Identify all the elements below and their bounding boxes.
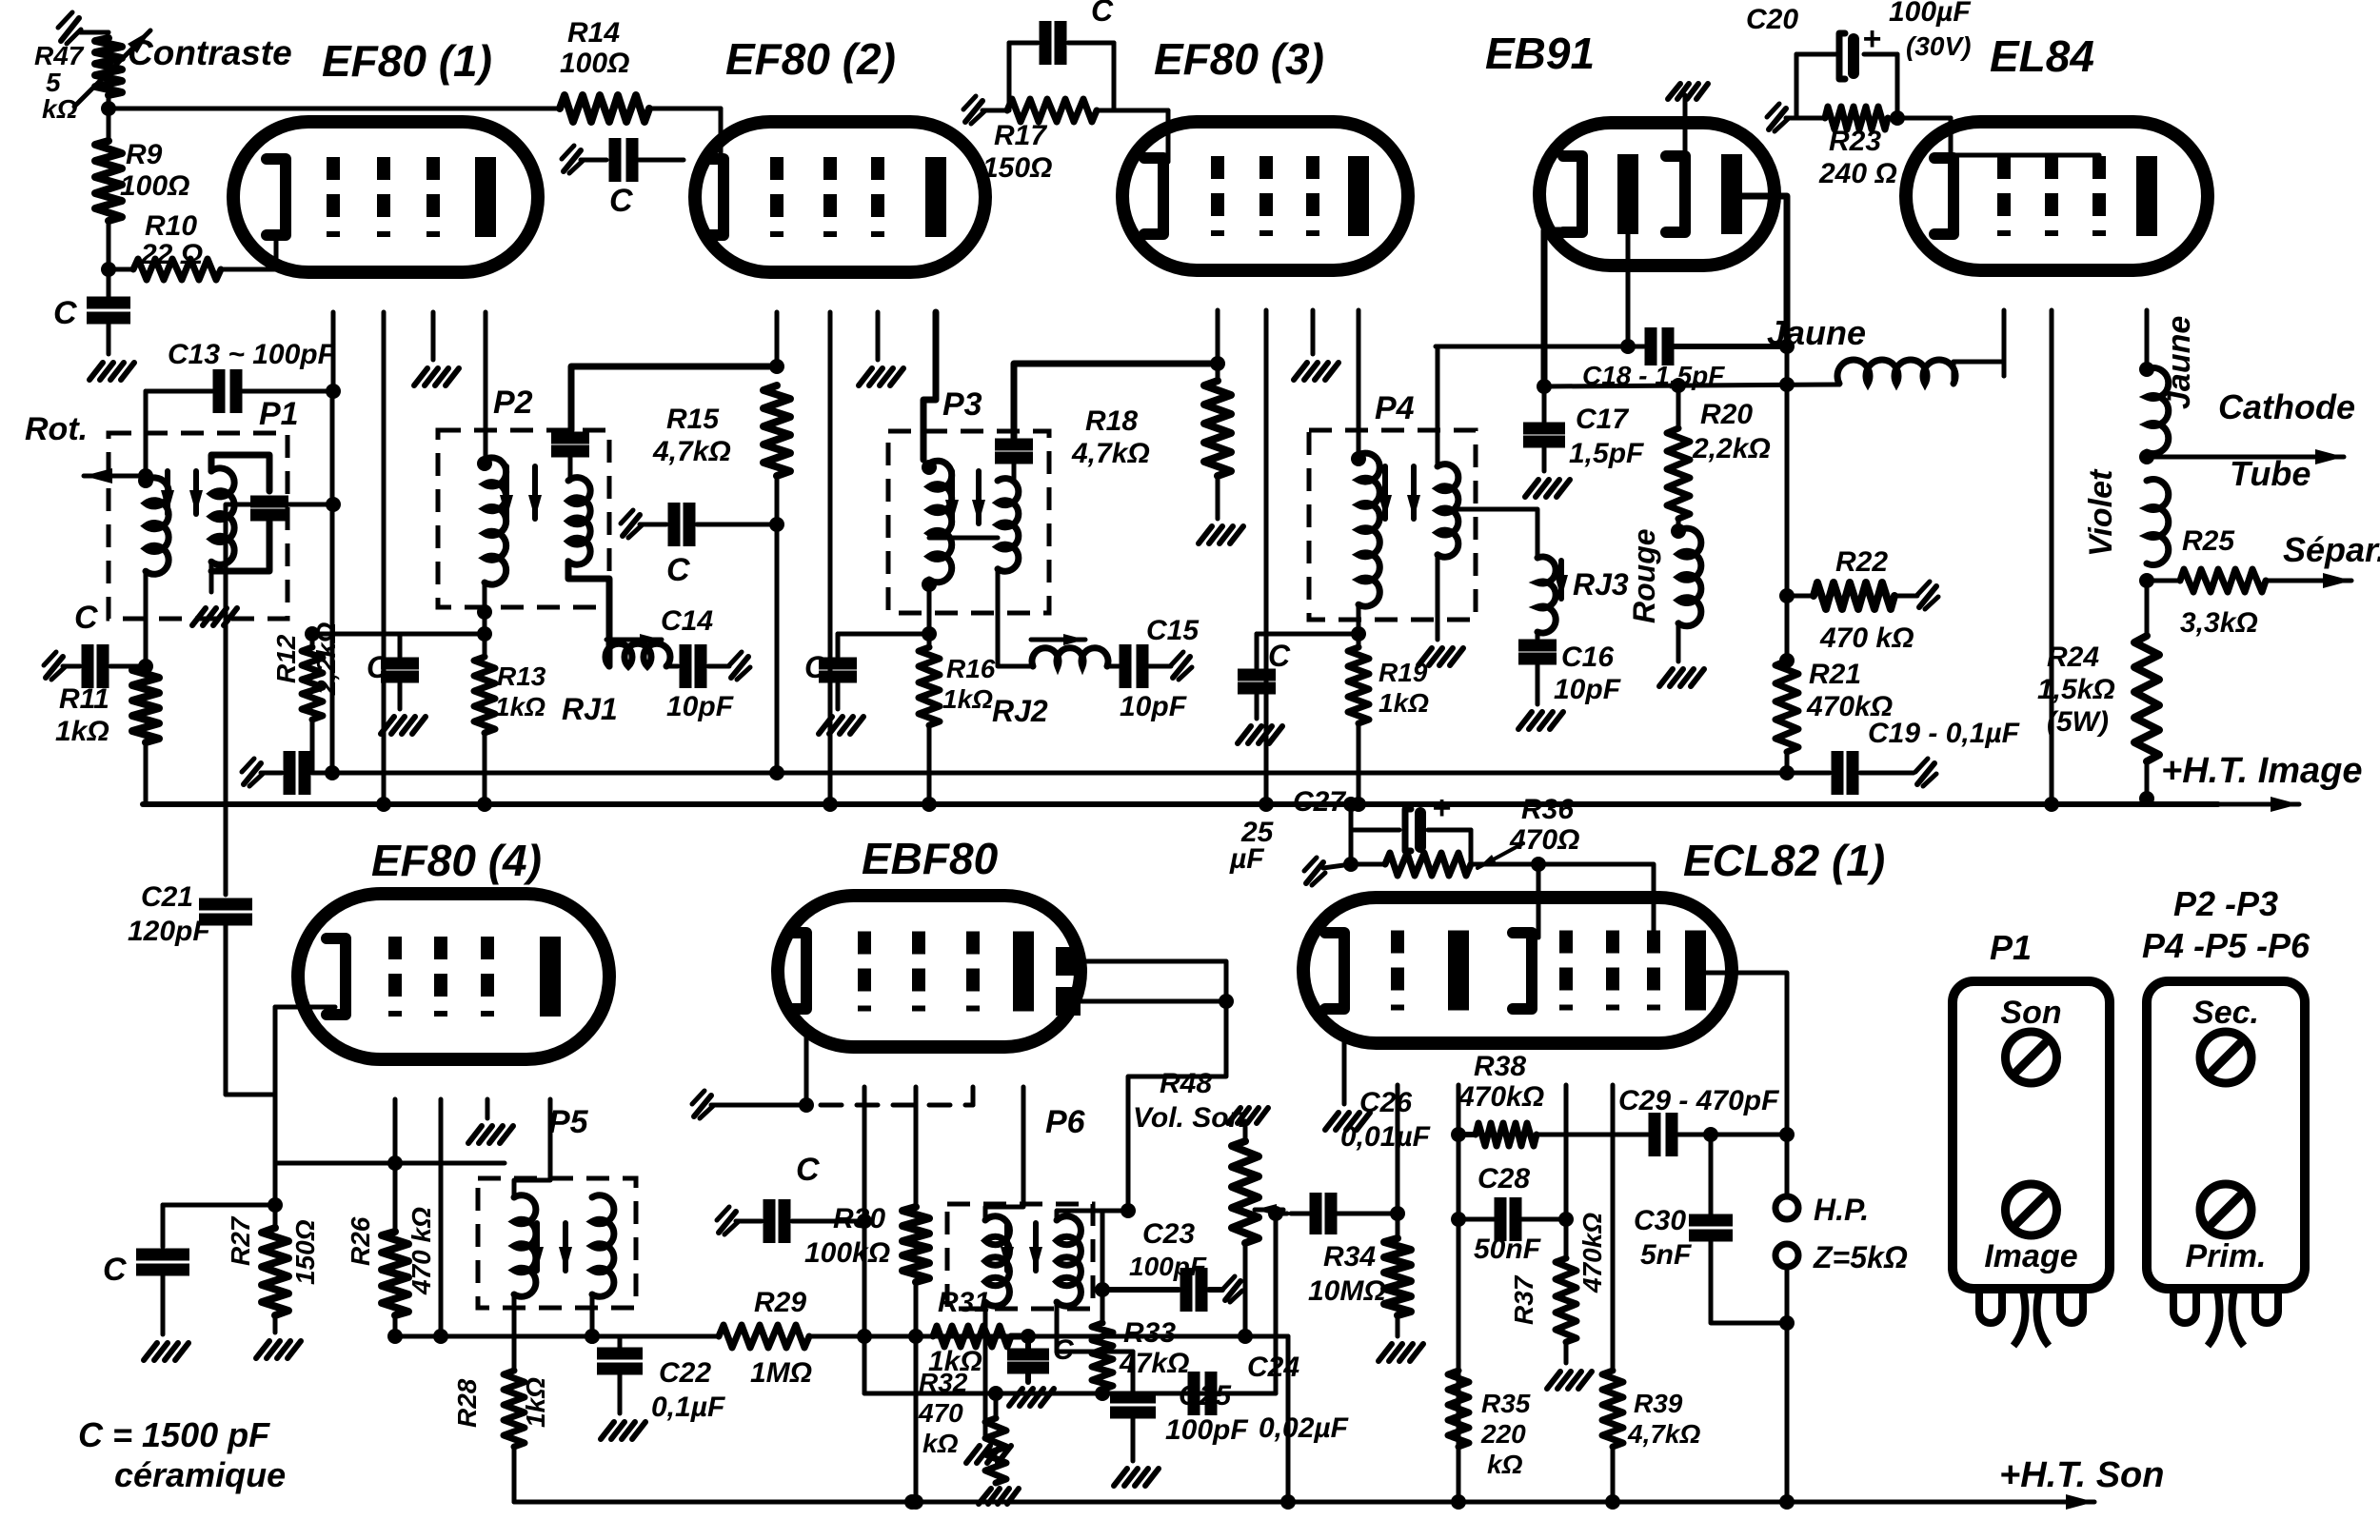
svg-text:+H.T. Image: +H.T. Image xyxy=(2161,751,2363,791)
svg-text:R21: R21 xyxy=(1809,659,1861,690)
resistor R39 4.7k xyxy=(1602,1371,1700,1510)
svg-text:P5: P5 xyxy=(548,1104,589,1140)
P3 trimmer capacitor xyxy=(995,444,1033,481)
svg-text:Z=5kΩ: Z=5kΩ xyxy=(1813,1240,1908,1274)
capacitor C screen EBF80 xyxy=(1007,1329,1075,1406)
svg-text:0,1µF: 0,1µF xyxy=(651,1392,725,1423)
svg-text:R17: R17 xyxy=(994,120,1047,151)
coil Jaune (liaison) xyxy=(1767,313,2004,384)
ground above EB91 xyxy=(1668,84,1708,160)
coil Jaune vertical xyxy=(2139,316,2197,464)
resistor R16 1k xyxy=(919,634,996,725)
capacitor C14 10pF xyxy=(661,605,750,722)
arrow Rot. xyxy=(25,411,146,484)
svg-text:C18 - 1,5pF: C18 - 1,5pF xyxy=(1582,361,1725,390)
wire P4 node left + C k4 xyxy=(1238,634,1359,743)
svg-text:1kΩ: 1kΩ xyxy=(942,684,993,714)
P3 coupling arrows xyxy=(945,471,985,523)
svg-text:47kΩ: 47kΩ xyxy=(1119,1348,1189,1379)
lead cathode ECL82 triode xyxy=(1325,1032,1370,1130)
P5 coupling arrows xyxy=(530,1223,572,1271)
lead g2 EF80(1) xyxy=(382,312,387,804)
svg-text:kΩ: kΩ xyxy=(42,94,78,124)
svg-text:2,2kΩ: 2,2kΩ xyxy=(311,622,341,696)
wire C13 left to P1 xyxy=(138,391,153,484)
svg-text:R37: R37 xyxy=(1509,1274,1538,1325)
wire R19 bus xyxy=(1351,723,1366,812)
svg-text:ECL82 (1): ECL82 (1) xyxy=(1683,836,1885,885)
svg-text:0,01µF: 0,01µF xyxy=(1340,1121,1431,1153)
lead anode EBF80 to P6 xyxy=(985,1087,1023,1220)
svg-text:1kΩ: 1kΩ xyxy=(521,1377,550,1428)
resistor R30 100k xyxy=(804,1203,929,1282)
lead g3 EF80(1) to ground xyxy=(414,312,459,385)
wire HP chain xyxy=(1779,1267,1795,1510)
wire R17 to cathode EF80(3) xyxy=(1114,110,1168,162)
svg-text:120pF: 120pF xyxy=(128,916,210,947)
wire R36 to g3 xyxy=(1538,864,1654,947)
label +H.T. Son xyxy=(1999,1455,2164,1495)
wire R30 bottom to bus xyxy=(908,1282,923,1510)
P4 secondary bottom xyxy=(1418,555,1463,665)
svg-text:C13 ~ 100pF: C13 ~ 100pF xyxy=(168,339,336,370)
peaking coil RJ2 xyxy=(992,569,1108,728)
capacitor C28 50nF xyxy=(1458,1163,1566,1265)
wire P2 to R13 xyxy=(483,634,487,657)
svg-text:R12: R12 xyxy=(271,634,301,683)
P6 secondary bottom xyxy=(1055,1302,1060,1352)
connector box P1 (Son/Image) xyxy=(1953,981,2110,1346)
stub C27 xyxy=(1304,858,1351,885)
svg-text:R48: R48 xyxy=(1160,1068,1212,1099)
svg-text:Prim.: Prim. xyxy=(2185,1238,2266,1274)
svg-text:R47: R47 xyxy=(34,41,85,70)
svg-text:50nF: 50nF xyxy=(1474,1234,1541,1265)
P3 secondary coil xyxy=(998,479,1019,572)
wire P1 primary down xyxy=(138,571,153,674)
svg-text:Image: Image xyxy=(1984,1238,2077,1274)
svg-text:100pF: 100pF xyxy=(1129,1252,1207,1281)
lead anode EF80(3) to P4 xyxy=(1357,310,1361,455)
capacitor C26 0.01uF xyxy=(1276,1087,1431,1234)
label P1 connector xyxy=(1990,928,2032,967)
lead g1 EF80(3) xyxy=(1210,310,1225,371)
resistor R18 4.7k xyxy=(1071,364,1243,543)
resistor R14 100ohm xyxy=(560,17,649,122)
resistor R33 47k xyxy=(1092,1290,1189,1393)
svg-text:10pF: 10pF xyxy=(1120,691,1187,722)
lead anode EF80(2) xyxy=(923,312,936,460)
lead cathode EBF80 xyxy=(799,1036,814,1113)
wire R13 bus xyxy=(477,733,492,812)
svg-text:EB91: EB91 xyxy=(1485,29,1595,78)
svg-text:R9: R9 xyxy=(126,139,163,170)
svg-text:4,7kΩ: 4,7kΩ xyxy=(1071,438,1150,469)
lead anode EF80(4) xyxy=(514,1099,550,1197)
potentiometer R47 (Contraste) xyxy=(34,30,150,124)
tube EF80(1) xyxy=(233,122,538,272)
svg-text:470kΩ: 470kΩ xyxy=(1577,1213,1607,1293)
capacitor C27 25uF electrolytic xyxy=(1229,786,1471,875)
capacitor C16 10pF xyxy=(1518,632,1621,729)
tube EF80(4) xyxy=(298,894,609,1059)
transformer box P2 xyxy=(438,385,609,607)
svg-text:C: C xyxy=(666,552,690,588)
svg-text:10pF: 10pF xyxy=(666,691,734,722)
P1 coupling arrows xyxy=(161,471,203,514)
svg-text:C: C xyxy=(796,1152,820,1188)
svg-text:R38: R38 xyxy=(1474,1051,1526,1082)
P1 tuning capacitor xyxy=(211,502,288,571)
P4 tap to RJ3 xyxy=(1443,509,1537,558)
label EB91 xyxy=(1485,29,1595,78)
resistor R38 470k xyxy=(1458,1051,1648,1146)
svg-text:EF80 (4): EF80 (4) xyxy=(371,836,542,885)
capacitor C grid EF80(2) xyxy=(562,138,684,219)
svg-text:EL84: EL84 xyxy=(1990,31,2094,81)
lead g1 EF80(1) down xyxy=(330,391,335,773)
P6 primary coil xyxy=(985,1216,1009,1307)
svg-text:R33: R33 xyxy=(1123,1317,1176,1349)
wire R16 bus xyxy=(922,725,937,812)
svg-text:470Ω: 470Ω xyxy=(1509,824,1579,856)
svg-text:C28: C28 xyxy=(1478,1163,1530,1194)
svg-text:C20: C20 xyxy=(1746,4,1798,35)
resistor R27 150ohm xyxy=(226,1205,320,1358)
wire C21 to EF80(4) cathode xyxy=(226,1007,275,1095)
wire top line xyxy=(109,107,560,111)
label P2-P3 connector xyxy=(2142,884,2311,965)
potentiometer R48 Vol. Son xyxy=(1133,1068,1268,1336)
svg-text:1,5kΩ: 1,5kΩ xyxy=(2037,674,2115,705)
capacitor C17 1.5pF xyxy=(1523,386,1644,497)
label C = 1500 pF xyxy=(78,1415,286,1494)
wire P6 sec top xyxy=(1057,1203,1136,1297)
svg-text:Contraste: Contraste xyxy=(128,33,292,72)
wire P5 primary bottom xyxy=(512,1294,517,1371)
svg-text:100pF: 100pF xyxy=(1165,1414,1248,1446)
svg-text:100Ω: 100Ω xyxy=(560,48,629,79)
P4 secondary top wire xyxy=(1436,346,1440,466)
peaking coil RJ1 xyxy=(562,634,670,726)
capacitor C21 120pF xyxy=(128,881,252,1095)
svg-text:Tube: Tube xyxy=(2230,454,2311,493)
svg-text:C: C xyxy=(53,295,77,331)
P1 secondary coil xyxy=(211,468,234,564)
svg-text:Sépar.: Sépar. xyxy=(2283,530,2380,569)
P4 secondary coil xyxy=(1438,464,1458,558)
svg-text:C22: C22 xyxy=(659,1357,711,1389)
terminal H.P. xyxy=(1775,1193,1869,1227)
connector box P2-P6 (Sec/Prim) xyxy=(2147,981,2305,1346)
P5 primary coil xyxy=(514,1195,536,1296)
resistor R29 1M xyxy=(719,1287,864,1389)
P6 primary bottom xyxy=(966,1302,1011,1463)
wire C24 riser xyxy=(1268,1206,1283,1393)
P1 primary coil xyxy=(138,473,169,574)
lead anode EF80(1) to P2 xyxy=(484,312,488,460)
svg-text:EF80 (1): EF80 (1) xyxy=(322,36,492,86)
svg-text:C: C xyxy=(804,650,827,684)
svg-text:EF80 (3): EF80 (3) xyxy=(1154,34,1324,84)
wire P5 sec bottom xyxy=(585,1294,600,1344)
resistor R28 1k xyxy=(452,1371,550,1502)
svg-text:R28: R28 xyxy=(452,1378,482,1428)
stub EBF80 cathode xyxy=(692,1091,806,1118)
arrow Cathode Tube xyxy=(2147,387,2355,493)
svg-text:R36: R36 xyxy=(1521,794,1574,825)
svg-text:1kΩ: 1kΩ xyxy=(55,716,109,747)
lead g3 EF80(2) ground xyxy=(859,312,903,385)
wire P3 primary down xyxy=(922,580,937,642)
lead diode2 plate EB91 xyxy=(1742,196,1787,346)
resistor R13 1k xyxy=(474,657,546,733)
capacitor C23 100pF xyxy=(1102,1218,1242,1312)
resistor R15 4.7k xyxy=(652,385,790,476)
line R26 row xyxy=(275,1161,505,1166)
svg-text:R11: R11 xyxy=(59,683,109,715)
capacitor C screen EF80(2) xyxy=(621,503,777,588)
svg-text:P4: P4 xyxy=(1375,390,1415,426)
wire R9 to R10 node xyxy=(101,221,116,277)
svg-text:+: + xyxy=(1862,21,1881,57)
svg-text:R15: R15 xyxy=(666,404,720,435)
svg-text:kΩ: kΩ xyxy=(1487,1450,1523,1479)
label EF80 (4) xyxy=(371,836,542,885)
svg-text:100kΩ: 100kΩ xyxy=(804,1237,890,1269)
svg-text:H.P.: H.P. xyxy=(1814,1193,1869,1227)
P3 coil link xyxy=(929,536,998,541)
svg-text:P2: P2 xyxy=(493,385,533,421)
wire cathode chain down xyxy=(268,1095,283,1213)
lead anode EL84 xyxy=(2139,310,2154,377)
svg-text:RJ3: RJ3 xyxy=(1573,567,1629,602)
wire R47 to line xyxy=(101,95,116,116)
tube EL84 xyxy=(1906,122,2208,270)
wire P2 node left xyxy=(400,632,485,637)
tube EB91 xyxy=(1539,123,1775,266)
lead g1 EF80(4) xyxy=(387,1099,403,1171)
svg-text:150Ω: 150Ω xyxy=(290,1219,320,1285)
svg-text:P1: P1 xyxy=(259,396,299,432)
P1 secondary bottom xyxy=(192,562,237,625)
lead g2 EF80(4) xyxy=(433,1099,448,1344)
label EF80 (2) xyxy=(725,34,896,84)
svg-text:EF80 (2): EF80 (2) xyxy=(725,34,896,84)
svg-text:R16: R16 xyxy=(946,654,996,683)
wire to P2 secondary xyxy=(571,366,777,430)
svg-text:C16: C16 xyxy=(1561,642,1614,673)
transformer box P6 xyxy=(947,1104,1093,1309)
svg-text:C15: C15 xyxy=(1146,615,1200,646)
line to C/R27 xyxy=(163,1203,275,1208)
lead g3 EF80(4) ground xyxy=(468,1099,513,1143)
svg-text:EBF80: EBF80 xyxy=(862,834,999,883)
lead grid ECL82 triode xyxy=(1390,1085,1405,1221)
lead cathode EF80(1) xyxy=(274,236,279,269)
svg-text:5nF: 5nF xyxy=(1640,1239,1692,1271)
lead g3 EF80(3) ground xyxy=(1294,310,1339,380)
svg-text:150Ω: 150Ω xyxy=(982,152,1052,184)
svg-text:µF: µF xyxy=(1229,843,1264,875)
svg-text:R20: R20 xyxy=(1700,399,1753,430)
svg-text:R39: R39 xyxy=(1634,1389,1683,1418)
svg-text:C21: C21 xyxy=(141,881,193,913)
svg-text:C: C xyxy=(1091,0,1114,28)
P3 primary coil xyxy=(922,460,952,592)
resistor R23 240ohm xyxy=(1796,107,1951,189)
label EL84 xyxy=(1990,31,2094,81)
svg-text:C: C xyxy=(74,600,98,636)
svg-text:céramique: céramique xyxy=(114,1455,286,1494)
tube ECL82(1) xyxy=(1303,898,1732,1043)
svg-text:1,5pF: 1,5pF xyxy=(1569,438,1644,469)
line C18 row xyxy=(1436,345,1644,349)
svg-text:P3: P3 xyxy=(942,386,982,423)
capacitor C k3 xyxy=(804,634,929,734)
coil Violet vertical xyxy=(2083,468,2169,588)
resistor R37 470k xyxy=(1509,1213,1607,1389)
P2 secondary coil xyxy=(568,478,590,565)
svg-text:R35: R35 xyxy=(1481,1389,1531,1418)
svg-text:100µF: 100µF xyxy=(1889,0,1971,28)
svg-text:470 kΩ: 470 kΩ xyxy=(407,1207,436,1295)
lead anode ECL82 triode xyxy=(1451,1085,1466,1510)
resistor R35 220k xyxy=(1448,1371,1531,1479)
diode plate wires EBF80 xyxy=(1081,961,1234,1211)
bus +H.T. Son xyxy=(514,1494,2094,1510)
lead diode1 plate EB91 xyxy=(1620,232,1636,354)
label ECL82 (1) xyxy=(1683,836,1885,885)
resistor R10 22ohm xyxy=(109,210,221,280)
svg-text:RJ1: RJ1 xyxy=(562,692,618,726)
ground below C xyxy=(89,363,134,380)
svg-text:470kΩ: 470kΩ xyxy=(1458,1081,1544,1113)
tube EBF80 xyxy=(778,896,1081,1047)
lead g1 EBF80 xyxy=(857,1087,872,1229)
P2 secondary bottom wire xyxy=(568,562,609,666)
svg-text:R34: R34 xyxy=(1323,1241,1376,1273)
svg-text:C: C xyxy=(1268,639,1291,673)
svg-text:+H.T. Son: +H.T. Son xyxy=(1999,1455,2164,1495)
EL84 internal wiring xyxy=(1951,118,2099,160)
resistor R21 470k xyxy=(1775,596,1893,752)
wiper arrow R48 xyxy=(1255,1204,1283,1215)
label EF80 (1) xyxy=(322,36,492,86)
svg-text:1kΩ: 1kΩ xyxy=(1378,688,1429,718)
wire R14 to EF80(2) xyxy=(649,109,721,160)
wire R15 down xyxy=(769,476,784,532)
svg-text:R30: R30 xyxy=(833,1203,885,1234)
resistor R11 1k xyxy=(55,666,159,747)
svg-text:R25: R25 xyxy=(2182,525,2235,557)
P6 coupling arrows xyxy=(1001,1223,1042,1271)
svg-text:100Ω: 100Ω xyxy=(120,170,189,202)
svg-text:Rouge: Rouge xyxy=(1627,528,1661,623)
svg-text:RJ2: RJ2 xyxy=(992,694,1048,728)
capacitor C15 10pF xyxy=(1107,615,1200,722)
svg-text:C23: C23 xyxy=(1142,1218,1195,1250)
svg-text:R18: R18 xyxy=(1085,405,1138,437)
resistor R31 1k xyxy=(928,1287,1011,1377)
svg-text:(5W): (5W) xyxy=(2047,706,2109,738)
lead anode ECL82 pentode xyxy=(1696,973,1795,1197)
svg-text:+: + xyxy=(1432,790,1451,826)
P2 primary bottom node xyxy=(477,582,492,642)
svg-text:4,7kΩ: 4,7kΩ xyxy=(1627,1419,1700,1449)
svg-text:R32: R32 xyxy=(919,1368,968,1397)
capacitor C k2 xyxy=(367,634,426,734)
svg-text:R22: R22 xyxy=(1835,546,1888,578)
lead diode1 cathode EB91 xyxy=(1537,230,1566,394)
svg-text:C26: C26 xyxy=(1359,1087,1412,1118)
capacitor C g1 EBF80 xyxy=(717,1152,864,1243)
svg-text:Cathode: Cathode xyxy=(2218,387,2355,426)
wire R36 to pentode cathode xyxy=(1537,864,1541,938)
resistor R20 2.2k xyxy=(1667,385,1771,519)
svg-text:R19: R19 xyxy=(1378,658,1428,687)
P4 coupling arrows xyxy=(1378,466,1420,519)
svg-text:R27: R27 xyxy=(226,1215,255,1266)
svg-text:Son: Son xyxy=(2000,995,2061,1031)
svg-text:C: C xyxy=(103,1252,127,1288)
resistor R34 10M xyxy=(1308,1214,1423,1361)
svg-text:P4 -P5 -P6: P4 -P5 -P6 xyxy=(2142,926,2311,965)
svg-text:P6: P6 xyxy=(1045,1104,1086,1140)
P2 coupling arrows xyxy=(500,466,542,519)
svg-text:R14: R14 xyxy=(567,17,620,49)
capacitor C input (grid) xyxy=(44,600,146,688)
label Contraste xyxy=(128,33,292,72)
svg-text:470 kΩ: 470 kΩ xyxy=(1819,622,1914,654)
label EF80 (3) xyxy=(1154,34,1324,84)
input terminal stub xyxy=(58,12,109,44)
svg-text:R10: R10 xyxy=(145,210,197,242)
capacitor C bottom-left xyxy=(103,1205,189,1360)
svg-text:C27: C27 xyxy=(1293,786,1346,818)
capacitor C20 electrolytic xyxy=(1746,0,1971,131)
line y1404 left xyxy=(395,1329,719,1344)
wire g1 EBF80 down xyxy=(857,1221,872,1344)
wire R11 to bus xyxy=(144,742,149,804)
capacitor C24 0.02uF xyxy=(1194,1352,1349,1444)
tube EF80(2) xyxy=(695,122,985,272)
svg-text:C14: C14 xyxy=(661,605,713,637)
lead cathode EF80(4) xyxy=(275,1007,335,1015)
P6 secondary coil xyxy=(1057,1216,1081,1307)
capacitor C18 1.5pF xyxy=(1582,327,1795,390)
resistor R12 2.2k xyxy=(271,622,400,773)
wire to line A xyxy=(769,524,784,780)
svg-text:R23: R23 xyxy=(1829,126,1881,157)
capacitor C (cathode bypass) xyxy=(53,269,130,354)
resistor R25 3.3k + arrow Separ xyxy=(2147,525,2380,639)
svg-text:10pF: 10pF xyxy=(1554,674,1621,705)
resistor R26 470k xyxy=(346,1163,436,1344)
capacitor C30 5nF xyxy=(1634,1135,1787,1323)
lead g3 EBF80 xyxy=(971,1087,976,1105)
P4 primary bottom xyxy=(1351,604,1366,642)
capacitor C13 100pF xyxy=(146,339,336,413)
svg-text:240 Ω: 240 Ω xyxy=(1818,158,1897,189)
svg-text:(30V): (30V) xyxy=(1906,31,1971,61)
P2 trimmer capacitor xyxy=(551,438,589,481)
terminal Z=5k xyxy=(1775,1240,1908,1274)
coil Rouge xyxy=(1627,519,1704,686)
svg-text:C = 1500 pF: C = 1500 pF xyxy=(78,1415,270,1454)
capacitor C line A left xyxy=(242,751,305,795)
svg-text:1kΩ: 1kΩ xyxy=(495,692,545,721)
